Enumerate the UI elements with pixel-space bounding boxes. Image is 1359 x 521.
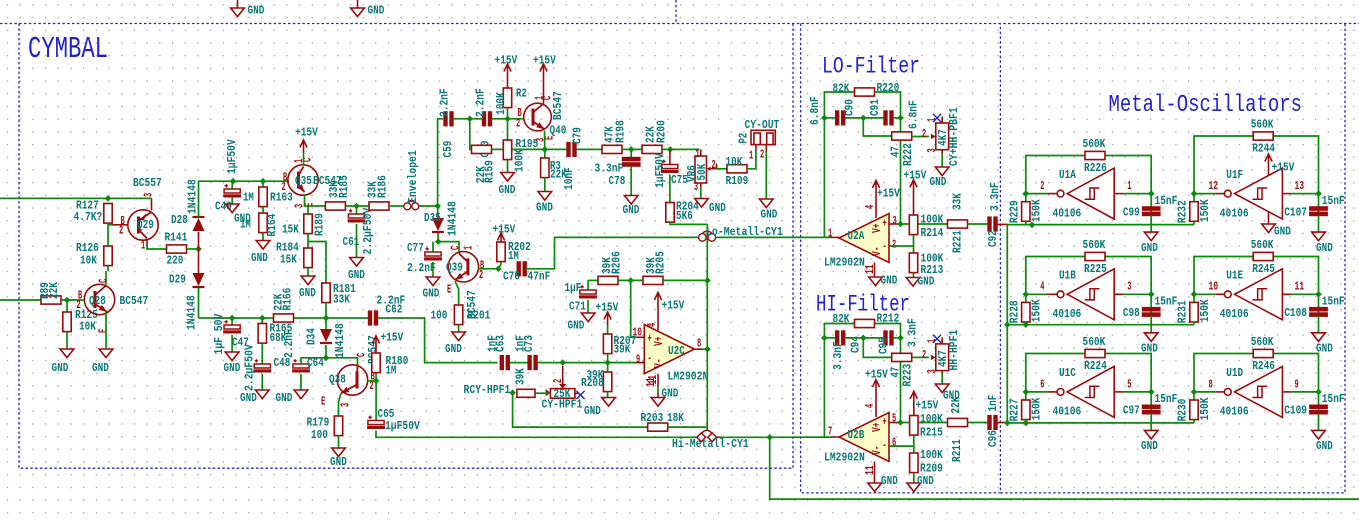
- ground R179: [330, 436, 347, 469]
- svg-text:R205: R205: [653, 251, 667, 274]
- svg-text:Hi-Metall-CY1: Hi-Metall-CY1: [672, 437, 749, 451]
- svg-text:Q40: Q40: [550, 123, 567, 137]
- resistor R185 33K: [325, 175, 351, 210]
- transistor Q40 BC547: [516, 91, 566, 142]
- capacitor C79 10nF: [562, 127, 585, 190]
- resistor R246 560K: [1251, 335, 1275, 373]
- resistor R186 33K: [365, 175, 389, 210]
- svg-text:1: 1: [1127, 179, 1131, 193]
- resistor R225 560K: [1083, 238, 1107, 276]
- svg-text:R222: R222: [901, 143, 915, 166]
- wire D29 to bus: [198, 288, 200, 318]
- svg-text:1µF50V: 1µF50V: [385, 419, 420, 433]
- svg-text:R223: R223: [901, 364, 915, 387]
- wire D35 to Q39 collector: [438, 233, 459, 252]
- svg-text:7: 7: [828, 424, 832, 438]
- svg-text:1µF 50V: 1µF 50V: [212, 313, 226, 354]
- capacitor C91 6.8nF: [868, 99, 921, 129]
- capacitor C65 1uF50V: [367, 381, 420, 433]
- supply +15V U2C: [654, 293, 684, 332]
- svg-text:+15V: +15V: [493, 222, 516, 236]
- svg-text:560K: 560K: [1083, 137, 1106, 151]
- svg-text:150K: 150K: [1198, 299, 1212, 322]
- capacitor C95 3.3nF: [876, 318, 919, 354]
- svg-text:C92: C92: [986, 230, 1000, 247]
- metal-oscillators box: [1000, 24, 1345, 493]
- node C61: [353, 203, 360, 210]
- svg-text:R231: R231: [1176, 300, 1190, 323]
- wire R211 to C96: [968, 422, 989, 424]
- wire R214 to pin2 row: [889, 235, 914, 246]
- svg-text:1µF50V: 1µF50V: [225, 139, 239, 174]
- resistor R203 18K: [641, 411, 685, 431]
- node RCY: [509, 390, 516, 397]
- svg-text:C49: C49: [215, 199, 232, 213]
- svg-text:R229: R229: [1008, 200, 1022, 223]
- capacitor C99 15nF: [1123, 194, 1177, 220]
- resistor R164 1M: [240, 207, 279, 237]
- node Q40 emitter: [542, 146, 549, 153]
- svg-text:R208: R208: [581, 376, 604, 390]
- svg-text:U1B: U1B: [1059, 269, 1076, 283]
- resistor R211 22K: [948, 396, 968, 462]
- svg-text:BC547: BC547: [120, 294, 149, 308]
- ground C109: [1312, 414, 1333, 453]
- svg-text:150K: 150K: [1030, 299, 1044, 322]
- wire C79 to R198: [576, 148, 602, 150]
- node Q40 base: [504, 116, 511, 123]
- wire U1A output: [1026, 193, 1047, 195]
- resistor R230 150K: [1176, 392, 1212, 423]
- resistor R207 39K: [603, 325, 636, 356]
- svg-text:LM2902N: LM2902N: [668, 369, 709, 383]
- capacitor C63 1nF: [485, 335, 509, 369]
- svg-text:R244: R244: [1252, 141, 1275, 155]
- wire R206-R205: [618, 279, 643, 281]
- svg-text:R211: R211: [950, 439, 964, 462]
- svg-text:GND: GND: [299, 286, 316, 300]
- svg-text:C59: C59: [441, 141, 455, 158]
- svg-text:R109: R109: [726, 174, 749, 188]
- capacitor C107 15nF: [1284, 194, 1344, 220]
- resistor R228 150K: [1008, 294, 1044, 324]
- capacitor C73 1nF: [513, 335, 537, 369]
- resistor R220 82K: [833, 81, 900, 96]
- svg-text:R206: R206: [609, 251, 623, 274]
- svg-text:82K: 82K: [833, 312, 850, 326]
- frame top rail: [0, 23, 1359, 25]
- svg-text:1nF: 1nF: [986, 395, 1000, 412]
- resistor R198 47K: [602, 120, 627, 153]
- svg-text:6: 6: [1040, 377, 1044, 391]
- supply +15V Q40: [533, 53, 556, 103]
- ground C99: [1141, 215, 1158, 254]
- svg-text:3.3nF: 3.3nF: [831, 341, 845, 370]
- svg-text:-: -: [648, 351, 652, 365]
- capacitor C90 6.8nF: [808, 96, 857, 125]
- svg-text:4.7K?: 4.7K?: [74, 210, 103, 224]
- svg-text:+15V: +15V: [865, 367, 888, 381]
- resistor RCY 39K: [513, 368, 535, 398]
- node U2A pin3: [897, 221, 904, 228]
- svg-text:GND: GND: [568, 318, 585, 332]
- svg-text:+15V: +15V: [1272, 160, 1295, 174]
- svg-text:P2: P2: [736, 133, 750, 144]
- svg-text:Q28: Q28: [89, 294, 106, 308]
- wire C59-C60: [453, 118, 483, 120]
- svg-text:D29: D29: [169, 272, 186, 286]
- svg-text:15nF: 15nF: [1155, 194, 1178, 208]
- svg-text:CY+HH-PBF1: CY+HH-PBF1: [947, 107, 961, 166]
- wire U1E feedback: [1194, 257, 1253, 295]
- inverter U1B 40106: [1057, 269, 1114, 320]
- wire riser to U2C pin10: [631, 280, 637, 337]
- capacitor C96 1nF: [986, 395, 1000, 447]
- resistor R166 22K: [271, 288, 294, 322]
- svg-text:15nF: 15nF: [1322, 295, 1345, 309]
- wire D34 node to Q38 collector: [326, 358, 358, 365]
- svg-text:13: 13: [1295, 179, 1305, 193]
- wire R109 to P2: [747, 151, 756, 169]
- svg-text:GND: GND: [499, 183, 516, 197]
- svg-text:GND: GND: [1141, 241, 1158, 255]
- svg-text:11: 11: [863, 465, 877, 475]
- svg-text:2: 2: [760, 147, 764, 161]
- svg-text:R232: R232: [1176, 200, 1190, 223]
- capacitor C47 1uF50V: [212, 313, 249, 354]
- op-amp U2B power pin 11: [874, 462, 876, 484]
- svg-text:4: 4: [863, 205, 877, 209]
- svg-text:GND: GND: [348, 268, 365, 282]
- wire R215 to pin6 row: [889, 435, 914, 446]
- svg-text:2: 2: [551, 379, 565, 383]
- bridge Lo-Metall-CY1: [699, 225, 783, 241]
- node U1C out: [1023, 389, 1030, 396]
- capacitor C78 3.3nF: [595, 149, 640, 187]
- resistor R159 22K: [472, 145, 497, 183]
- svg-text:11: 11: [646, 375, 660, 385]
- transistor Q28 BC547: [77, 279, 149, 333]
- wire R198-R200: [622, 148, 642, 150]
- trimmer HH-HPF1 4K7: [922, 330, 961, 374]
- ground HI pot: [935, 374, 959, 402]
- wire D28 up to env node: [199, 181, 290, 217]
- erc mark HI pot: [933, 335, 941, 343]
- svg-text:2: 2: [77, 298, 81, 312]
- node C78: [628, 146, 635, 153]
- wire bus D29 to R166: [199, 317, 274, 319]
- svg-text:U1A: U1A: [1059, 168, 1076, 182]
- node D34 bottom: [323, 355, 330, 362]
- ground C61: [348, 224, 365, 282]
- svg-text:150K: 150K: [1198, 397, 1212, 420]
- ground U2B: [868, 474, 898, 492]
- svg-text:R226: R226: [1084, 161, 1107, 175]
- resistor R227 150K: [1008, 392, 1044, 423]
- svg-text:15K: 15K: [282, 222, 299, 236]
- svg-text:+15V: +15V: [662, 298, 685, 312]
- svg-text:C91: C91: [868, 99, 882, 116]
- svg-text:560K: 560K: [1083, 335, 1106, 349]
- svg-text:3.3nF: 3.3nF: [905, 318, 919, 347]
- svg-text:100K: 100K: [920, 448, 943, 462]
- wire mix bus row3: [1007, 422, 1194, 424]
- svg-text:U1F: U1F: [1226, 168, 1243, 182]
- wire R181 to bus: [325, 303, 327, 318]
- wire R204 to U2C net: [670, 222, 707, 224]
- inverter U1F 40106: [1224, 168, 1282, 219]
- ground C77: [423, 262, 440, 300]
- svg-text:100K: 100K: [513, 149, 527, 172]
- wire C63-C73: [509, 362, 528, 364]
- node C91 right: [897, 115, 904, 122]
- svg-text:R164: R164: [265, 213, 279, 236]
- svg-text:U1C: U1C: [1059, 366, 1076, 380]
- svg-text:1: 1: [462, 246, 476, 250]
- wire C96 into metal box: [997, 422, 1008, 424]
- resistor R3 22K: [541, 149, 568, 181]
- ground C78: [623, 166, 640, 217]
- svg-text:47nF: 47nF: [528, 269, 551, 283]
- svg-text:100: 100: [431, 308, 448, 322]
- svg-text:11: 11: [1295, 280, 1305, 294]
- svg-text:3.3nF: 3.3nF: [988, 182, 1002, 211]
- svg-text:GND: GND: [709, 201, 726, 215]
- node C75: [667, 146, 674, 153]
- svg-text:C63: C63: [493, 335, 507, 352]
- node Q38 base: [373, 378, 380, 385]
- node C59-C60: [467, 116, 474, 123]
- svg-text:+15V: +15V: [916, 398, 939, 412]
- resistor R195 100K: [503, 119, 538, 172]
- svg-text:100K: 100K: [494, 92, 508, 115]
- svg-text:1M: 1M: [243, 190, 254, 204]
- ground C97: [1141, 414, 1158, 453]
- svg-text:3: 3: [925, 148, 939, 152]
- svg-text:+: +: [648, 332, 652, 346]
- svg-text:GND: GND: [1316, 241, 1333, 255]
- resistor R109 10K: [726, 155, 749, 188]
- wire Q35 emitter row: [305, 194, 326, 206]
- svg-text:1: 1: [828, 226, 832, 240]
- svg-text:R214: R214: [921, 226, 944, 240]
- wire R203 to U2C out riser: [668, 426, 708, 428]
- resistor R232 150K: [1176, 194, 1212, 225]
- capacitor C94 3.3nF: [824, 331, 862, 370]
- ground C48: [240, 374, 269, 405]
- svg-text:5K6: 5K6: [676, 209, 693, 223]
- svg-text:R2: R2: [516, 86, 527, 100]
- diode D28 1N4148: [171, 179, 205, 249]
- node D28-D29: [195, 246, 202, 253]
- wire Q29 base stub: [108, 224, 113, 226]
- wire U1C input: [1114, 391, 1124, 393]
- svg-text:560K: 560K: [1083, 238, 1106, 252]
- node U2C feedback: [704, 277, 711, 284]
- svg-text:11: 11: [863, 264, 877, 274]
- resistor R209 100K: [910, 446, 944, 475]
- svg-text:2: 2: [479, 268, 483, 282]
- resistor R2 100K: [494, 86, 527, 119]
- svg-text:3: 3: [925, 369, 939, 373]
- svg-text:560K: 560K: [1251, 238, 1274, 252]
- svg-text:1N4148: 1N4148: [185, 179, 199, 214]
- wire U1F feedback: [1194, 136, 1253, 194]
- resistor R245 560K: [1251, 238, 1275, 276]
- svg-text:10nF: 10nF: [562, 167, 576, 190]
- wire U1A feedback: [1026, 156, 1085, 194]
- svg-text:GND: GND: [918, 274, 935, 288]
- wire U1D input: [1282, 391, 1292, 393]
- resistor R215 100K: [910, 412, 944, 440]
- capacitor C59 2.2nF: [437, 88, 455, 157]
- node U1A out: [1023, 190, 1030, 197]
- svg-text:GND: GND: [368, 3, 385, 17]
- ground C108: [1312, 316, 1333, 355]
- svg-text:GND: GND: [330, 455, 347, 469]
- wire Q40 emitter: [544, 131, 546, 150]
- ground top-left: [231, 0, 265, 17]
- svg-text:40106: 40106: [1053, 405, 1082, 419]
- transistor Q38 BC547: [321, 335, 380, 408]
- svg-text:3: 3: [339, 403, 353, 407]
- capacitor C60 2.2nF: [473, 88, 492, 157]
- resistor R214 100K: [909, 212, 943, 240]
- svg-text:C79: C79: [570, 127, 584, 144]
- op-amp U2C LM2902N: [644, 325, 694, 374]
- wire U1C output: [1026, 391, 1047, 393]
- resistor R180 1M: [372, 353, 409, 381]
- svg-text:C98: C98: [1123, 306, 1140, 320]
- wire C91 right: [893, 117, 901, 119]
- transistor Q29 BC557: [113, 176, 162, 253]
- ground U1F: [1262, 212, 1291, 238]
- wire C76 to Lo-Metall riser: [526, 237, 699, 268]
- ground R195: [499, 160, 516, 197]
- svg-text:15nF: 15nF: [1322, 194, 1345, 208]
- svg-text:R203: R203: [641, 411, 664, 425]
- svg-text:R159: R159: [482, 160, 496, 183]
- svg-text:R221: R221: [950, 230, 964, 253]
- capacitor C61 2.2uF50V: [343, 206, 375, 255]
- resistor R141: [165, 230, 188, 267]
- svg-text:8: 8: [697, 336, 701, 350]
- wire Q35 collector: [303, 153, 305, 166]
- svg-text:R198: R198: [613, 120, 627, 143]
- wire U1F output: [1194, 193, 1215, 195]
- svg-text:U1E: U1E: [1226, 269, 1243, 283]
- wire U1C feedback: [1026, 354, 1085, 392]
- svg-text:2: 2: [282, 180, 286, 194]
- svg-text:BC557: BC557: [133, 176, 162, 190]
- wire C90 mid to R222: [863, 118, 891, 136]
- ground C49: [225, 198, 250, 226]
- svg-text:GND: GND: [761, 207, 778, 221]
- node U1F out: [1191, 190, 1198, 197]
- svg-text:RCY-HPF1: RCY-HPF1: [464, 383, 511, 397]
- svg-text:GND: GND: [930, 175, 947, 189]
- wire U1E output: [1194, 293, 1215, 295]
- resistor R179 100: [307, 415, 343, 442]
- svg-text:U1D: U1D: [1226, 366, 1243, 380]
- wire C73 to U2C pin9: [537, 362, 644, 364]
- svg-text:22K: 22K: [47, 282, 61, 299]
- wire R141 to D28 node: [187, 248, 199, 250]
- svg-text:39K: 39K: [513, 368, 527, 385]
- resistor R231 150K: [1176, 294, 1212, 324]
- svg-text:GND: GND: [536, 200, 553, 214]
- wire LO feedback left: [824, 92, 854, 237]
- svg-text:U2C: U2C: [668, 344, 685, 358]
- svg-text:C108: C108: [1284, 306, 1307, 320]
- svg-text:100K: 100K: [921, 212, 944, 226]
- wire mix bus vertical: [1006, 225, 1008, 423]
- node C49: [230, 178, 237, 185]
- ground top-right: [351, 0, 385, 17]
- resistor R184 15K: [276, 234, 312, 268]
- svg-text:+15V: +15V: [877, 186, 900, 200]
- ground R125: [52, 332, 74, 375]
- svg-text:Metal-Oscillators: Metal-Oscillators: [1109, 92, 1303, 119]
- wire U1F input: [1282, 193, 1292, 195]
- svg-text:GND: GND: [1316, 439, 1333, 453]
- wire U1B output: [1026, 293, 1047, 295]
- svg-text:12: 12: [1209, 179, 1219, 193]
- wire U2A pin3 row: [889, 223, 898, 225]
- capacitor C64 2.2nF: [282, 329, 324, 372]
- svg-text:6.8nF: 6.8nF: [808, 96, 822, 125]
- node U1E out: [1191, 291, 1198, 298]
- svg-text:150K: 150K: [1030, 397, 1044, 420]
- svg-text:10K: 10K: [80, 253, 97, 267]
- svg-text:6.8nF: 6.8nF: [906, 100, 920, 129]
- capacitor C92 3.3nF: [986, 182, 1002, 247]
- capacitor C48 2.2uF50V: [242, 343, 290, 391]
- resistor R127: [74, 198, 113, 224]
- svg-text:GND: GND: [248, 3, 265, 17]
- diode D35 1N4148: [424, 201, 459, 236]
- svg-text:GND: GND: [917, 474, 934, 488]
- node C90 left: [821, 115, 828, 122]
- svg-text:18K: 18K: [667, 411, 684, 425]
- svg-text:39K: 39K: [614, 342, 631, 356]
- svg-text:1M: 1M: [240, 217, 251, 231]
- wire pot to 39K resistor: [535, 392, 550, 394]
- supply +15V U2B: [865, 367, 888, 417]
- ground R209: [907, 473, 934, 492]
- wire input cymbal: [0, 299, 41, 301]
- svg-text:8: 8: [1209, 377, 1213, 391]
- wire U1D output: [1194, 391, 1215, 393]
- connector P2 CY-OUT: [736, 118, 779, 163]
- svg-text:C62: C62: [386, 302, 403, 316]
- node C94-C95: [860, 335, 867, 342]
- node D35 bottom: [435, 238, 442, 245]
- wire R89 to Q28 base: [61, 299, 85, 301]
- capacitor C97 15nF: [1123, 392, 1177, 418]
- svg-text:GND: GND: [1274, 224, 1291, 238]
- ground C64: [276, 374, 308, 405]
- wire input trigger: [0, 197, 152, 199]
- node C47: [229, 315, 236, 322]
- svg-text:R185: R185: [337, 175, 351, 198]
- wire R222 to pot: [912, 136, 929, 138]
- node C95 right: [897, 335, 904, 342]
- svg-text:Q38: Q38: [329, 372, 346, 386]
- svg-text:+15V: +15V: [596, 300, 619, 314]
- node mix row2 b: [1023, 321, 1030, 328]
- node D35 top: [434, 203, 441, 210]
